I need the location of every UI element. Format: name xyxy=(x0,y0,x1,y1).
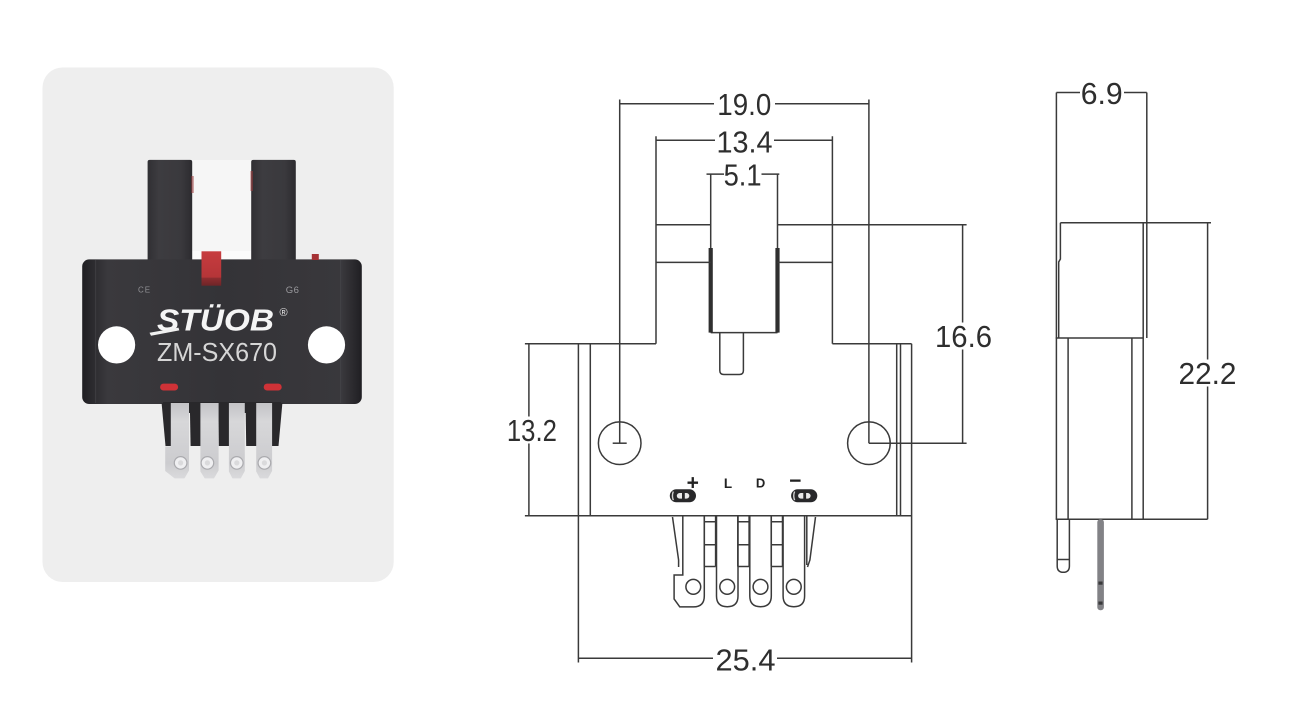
svg-text:L: L xyxy=(724,476,732,491)
svg-text:22.2: 22.2 xyxy=(1179,356,1237,391)
svg-text:®: ® xyxy=(279,307,287,319)
svg-text:6.9: 6.9 xyxy=(1081,76,1123,111)
svg-text:5.1: 5.1 xyxy=(724,158,762,193)
svg-text:CE: CE xyxy=(138,285,151,294)
svg-text:13.2: 13.2 xyxy=(507,413,557,448)
svg-text:ZM-SX670: ZM-SX670 xyxy=(157,339,277,367)
svg-text:16.6: 16.6 xyxy=(935,319,992,354)
svg-text:19.0: 19.0 xyxy=(717,87,771,122)
svg-text:13.4: 13.4 xyxy=(717,125,773,160)
svg-text:STÜOB: STÜOB xyxy=(157,303,274,338)
svg-text:G6: G6 xyxy=(286,285,300,296)
svg-text:25.4: 25.4 xyxy=(716,643,776,678)
svg-text:−: − xyxy=(789,470,801,493)
svg-text:D: D xyxy=(756,476,765,491)
